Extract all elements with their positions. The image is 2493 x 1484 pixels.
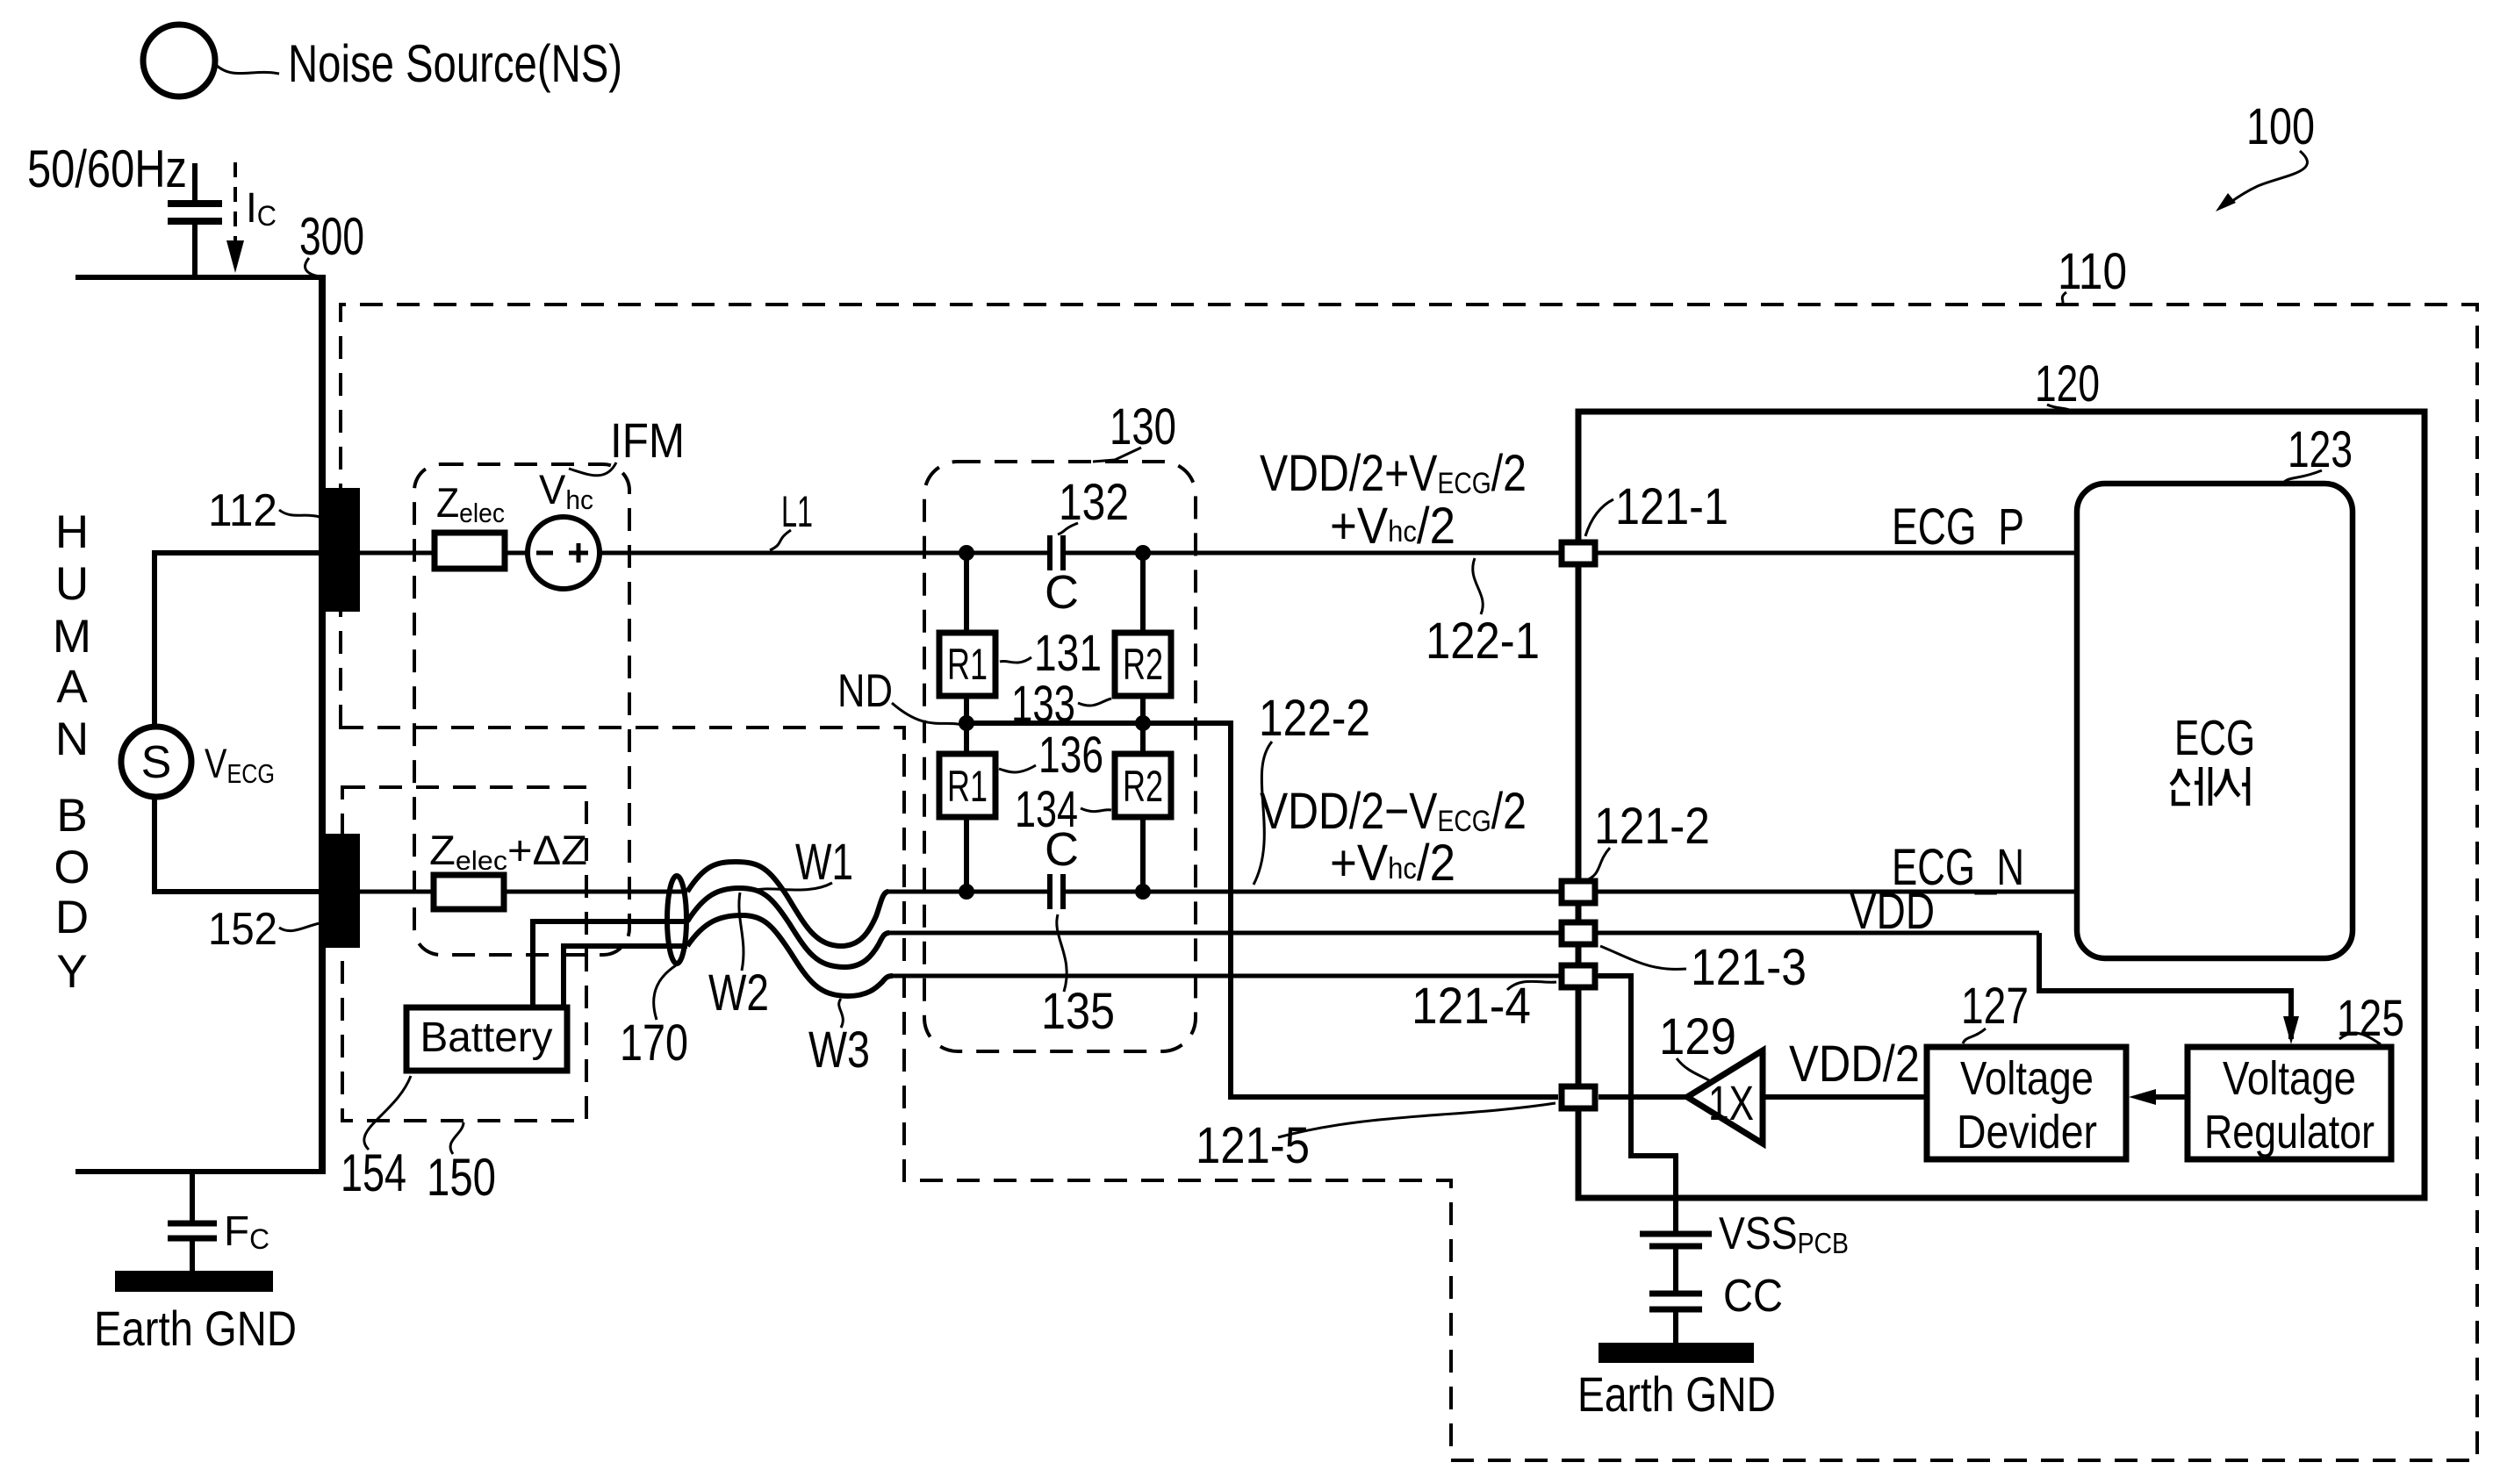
svg-text:131: 131 — [1034, 625, 1102, 682]
svg-text:1X: 1X — [1708, 1075, 1754, 1130]
svg-text:W3: W3 — [808, 1022, 870, 1079]
svg-text:Y: Y — [56, 946, 87, 998]
svg-text:IFM: IFM — [610, 412, 685, 468]
svg-text:Battery: Battery — [420, 1014, 553, 1061]
svg-text:A: A — [56, 661, 88, 713]
svg-text:ND: ND — [837, 665, 893, 717]
svg-text:132: 132 — [1059, 474, 1129, 531]
svg-text:W2: W2 — [708, 964, 769, 1022]
svg-text:O: O — [54, 842, 90, 893]
svg-text:110: 110 — [2058, 243, 2127, 300]
svg-text:127: 127 — [1961, 978, 2029, 1035]
svg-text:W1: W1 — [795, 834, 853, 891]
svg-text:ECG: ECG — [2174, 710, 2255, 766]
svg-text:130: 130 — [1110, 398, 1176, 455]
svg-text:Regulator: Regulator — [2204, 1106, 2374, 1158]
svg-text:122-1: 122-1 — [1426, 613, 1540, 670]
svg-text:Zelec+ΔZ: Zelec+ΔZ — [429, 827, 587, 876]
svg-text:U: U — [55, 558, 89, 610]
svg-text:Earth GND: Earth GND — [1577, 1366, 1776, 1422]
svg-text:VDD: VDD — [1850, 883, 1935, 940]
svg-text:121-5: 121-5 — [1196, 1117, 1310, 1174]
svg-text:170: 170 — [620, 1014, 688, 1072]
svg-text:H: H — [55, 506, 89, 558]
svg-text:Voltage: Voltage — [2223, 1052, 2356, 1105]
svg-text:R2: R2 — [1123, 762, 1163, 811]
svg-text:120: 120 — [2035, 355, 2100, 412]
svg-text:N: N — [55, 713, 89, 765]
svg-text:VDD/2: VDD/2 — [1789, 1036, 1920, 1093]
svg-text:135: 135 — [1041, 983, 1115, 1040]
svg-text:R1: R1 — [947, 762, 988, 811]
svg-text:Earth GND: Earth GND — [94, 1301, 297, 1356]
svg-text:134: 134 — [1015, 781, 1078, 838]
svg-text:121-3: 121-3 — [1691, 939, 1807, 996]
svg-text:121-1: 121-1 — [1615, 478, 1728, 535]
svg-text:50/60Hz: 50/60Hz — [27, 140, 187, 198]
svg-text:136: 136 — [1038, 727, 1103, 784]
svg-text:L1: L1 — [781, 487, 813, 536]
svg-text:121-2: 121-2 — [1594, 798, 1710, 855]
svg-text:B: B — [56, 790, 87, 842]
svg-text:300: 300 — [299, 207, 364, 266]
svg-text:D: D — [55, 892, 89, 943]
svg-text:100: 100 — [2246, 98, 2315, 155]
svg-text:112: 112 — [208, 485, 277, 536]
svg-text:R2: R2 — [1123, 640, 1163, 689]
svg-text:S: S — [141, 737, 172, 788]
svg-text:M: M — [53, 611, 91, 663]
svg-text:133: 133 — [1011, 676, 1075, 733]
svg-text:Noise Source(NS): Noise Source(NS) — [288, 34, 622, 93]
svg-text:ECG_P: ECG_P — [1892, 498, 2024, 556]
svg-text:C: C — [1045, 566, 1079, 619]
svg-text:150: 150 — [427, 1148, 496, 1207]
svg-text:CC: CC — [1723, 1271, 1783, 1322]
svg-text:Devider: Devider — [1957, 1106, 2097, 1158]
svg-text:152: 152 — [208, 904, 277, 955]
svg-text:129: 129 — [1659, 1008, 1736, 1065]
svg-text:122-2: 122-2 — [1259, 690, 1370, 747]
svg-text:Voltage: Voltage — [1960, 1052, 2094, 1105]
svg-text:154: 154 — [341, 1143, 406, 1202]
svg-text:R1: R1 — [947, 640, 988, 689]
